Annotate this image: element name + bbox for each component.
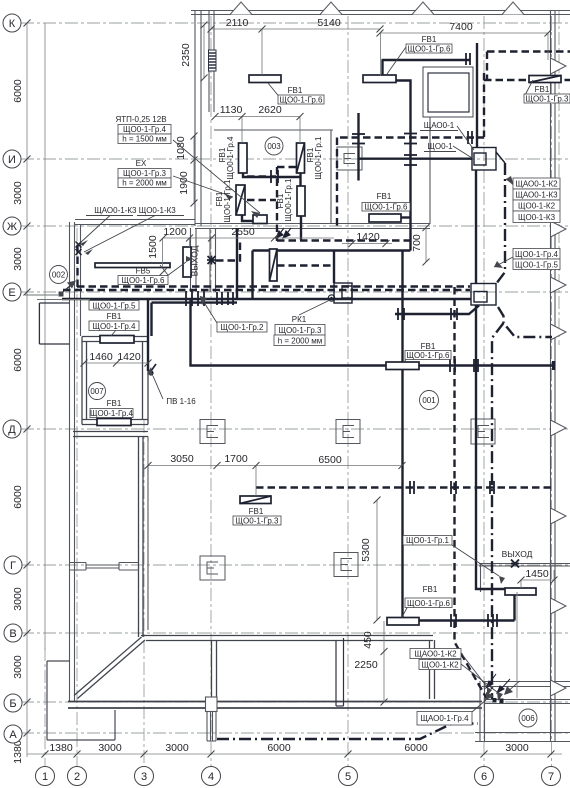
svg-text:1450: 1450 [525,568,549,580]
svg-text:1900: 1900 [178,171,190,195]
svg-text:2350: 2350 [180,43,192,67]
svg-text:3050: 3050 [170,453,194,465]
svg-text:EX: EX [136,159,147,168]
svg-text:Д: Д [8,424,16,436]
svg-text:2250: 2250 [354,659,378,671]
svg-text:ЩО0-1-Гр.1: ЩО0-1-Гр.1 [314,136,323,180]
svg-text:ЩАО0-1-К2: ЩАО0-1-К2 [515,180,558,189]
svg-text:1420: 1420 [117,351,141,363]
svg-text:3000: 3000 [12,181,24,205]
svg-text:FB1: FB1 [423,585,438,594]
svg-text:450: 450 [362,631,374,649]
svg-text:ЩО0-1-Гр.6: ЩО0-1-Гр.6 [365,203,409,212]
svg-text:ЩО0-1-К3: ЩО0-1-К3 [518,213,556,222]
svg-text:h = 2000 мм: h = 2000 мм [122,179,167,188]
svg-text:FB1: FB1 [422,35,437,44]
svg-text:ЩО0-1-Гр.4: ЩО0-1-Гр.4 [93,322,137,331]
svg-text:3000: 3000 [12,587,24,611]
svg-text:003: 003 [267,142,281,151]
svg-text:1080: 1080 [175,136,187,160]
svg-text:И: И [8,154,16,166]
svg-text:FB1: FB1 [107,399,122,408]
svg-text:ЩО0-1-Гр.3: ЩО0-1-Гр.3 [279,326,323,335]
svg-text:3000: 3000 [165,742,189,754]
svg-text:5300: 5300 [360,538,372,562]
svg-text:ЩО0-1-Гр.4: ЩО0-1-Гр.4 [123,125,167,134]
svg-text:3000: 3000 [98,742,122,754]
svg-text:FB1: FB1 [535,85,550,94]
svg-text:ЩО0-1-Гр.6: ЩО0-1-Гр.6 [122,276,166,285]
svg-text:ЩО0-1-Гр.4: ЩО0-1-Гр.4 [515,250,559,259]
svg-text:3: 3 [141,771,147,783]
svg-text:ЩО0-1-Гр.6: ЩО0-1-Гр.6 [407,599,451,608]
svg-text:3000: 3000 [12,655,24,679]
svg-text:Б: Б [9,698,16,710]
svg-text:FB1: FB1 [377,192,392,201]
svg-text:700: 700 [411,234,423,252]
svg-text:6: 6 [481,771,487,783]
svg-text:Г: Г [10,560,16,572]
svg-text:ЩО0-1-Гр.3: ЩО0-1-Гр.3 [526,95,570,104]
svg-text:2550: 2550 [231,226,255,238]
svg-text:1130: 1130 [220,104,243,116]
svg-text:6000: 6000 [267,742,291,754]
svg-text:h = 1500 мм: h = 1500 мм [122,135,167,144]
svg-text:001: 001 [422,396,436,405]
svg-text:ЩО0-1-Гр.5: ЩО0-1-Гр.5 [515,261,559,270]
svg-text:РК1: РК1 [292,315,307,324]
svg-text:ЩО0-1-Гр.1: ЩО0-1-Гр.1 [406,536,450,545]
svg-text:Ж: Ж [7,221,17,233]
svg-text:3000: 3000 [12,247,24,271]
svg-text:3000: 3000 [505,742,529,754]
svg-text:2620: 2620 [258,104,282,116]
svg-text:FB1: FB1 [107,312,122,321]
svg-text:Е: Е [8,287,15,299]
svg-text:1380: 1380 [49,742,73,754]
svg-text:1: 1 [42,771,48,783]
svg-text:1700: 1700 [224,453,248,465]
svg-text:ЩАО0-1: ЩАО0-1 [424,121,455,130]
svg-text:ВЫХОД: ВЫХОД [190,245,200,276]
svg-text:FB1: FB1 [421,342,436,351]
svg-text:ЩО0-1-Гр.4: ЩО0-1-Гр.4 [90,409,134,418]
svg-text:1500: 1500 [147,235,159,259]
svg-text:FB1: FB1 [249,507,264,516]
svg-text:4: 4 [208,771,214,783]
svg-text:006: 006 [521,714,535,723]
svg-text:ЩАО0-1-К3: ЩАО0-1-К3 [515,191,558,200]
svg-text:К: К [9,18,16,30]
svg-text:ЩО0-1-Гр.3: ЩО0-1-Гр.3 [236,517,280,526]
svg-text:ЩО0-1-Гр.6: ЩО0-1-Гр.6 [408,45,452,54]
svg-text:ЩАО0-1-К2: ЩАО0-1-К2 [414,650,457,659]
svg-text:ВЫХОД: ВЫХОД [502,549,533,559]
svg-text:ЩО0-1-Гр.1: ЩО0-1-Гр.1 [284,178,293,222]
svg-text:1420: 1420 [356,231,380,243]
svg-text:5140: 5140 [317,17,341,29]
svg-text:ЩО0-1-Гр.6: ЩО0-1-Гр.6 [407,351,451,360]
svg-text:ЯТП-0,25 12В: ЯТП-0,25 12В [115,115,166,124]
svg-text:ЩО0-1-Гр.3: ЩО0-1-Гр.3 [123,169,167,178]
svg-text:FB1: FB1 [288,86,303,95]
svg-text:ПВ 1-16: ПВ 1-16 [166,397,196,406]
svg-text:6000: 6000 [12,348,24,372]
svg-text:1200: 1200 [163,226,187,238]
svg-text:ЩО0-1-Гр.1: ЩО0-1-Гр.1 [223,179,232,223]
svg-text:7: 7 [548,771,554,783]
svg-text:ЩО0-1-Гр.6: ЩО0-1-Гр.6 [280,96,324,105]
svg-text:6000: 6000 [404,742,428,754]
svg-text:2110: 2110 [226,17,249,29]
svg-text:5: 5 [345,771,351,783]
svg-text:1380: 1380 [12,740,24,764]
svg-text:6500: 6500 [318,454,342,466]
svg-text:ЩО0-1: ЩО0-1 [427,142,453,151]
svg-text:6000: 6000 [12,79,24,103]
svg-text:В: В [9,628,16,640]
svg-text:А: А [9,729,17,741]
svg-text:2: 2 [74,771,80,783]
svg-text:1460: 1460 [89,351,113,363]
svg-text:ЩАО0-1-К3 ЩО0-1-К3: ЩАО0-1-К3 ЩО0-1-К3 [94,206,176,215]
svg-text:007: 007 [90,387,104,396]
svg-text:h = 2000 мм: h = 2000 мм [278,337,323,346]
svg-text:ЩО0-1-Гр.2: ЩО0-1-Гр.2 [221,323,265,332]
svg-text:ЩО0-1-Гр.5: ЩО0-1-Гр.5 [93,302,137,311]
svg-text:002: 002 [52,271,66,280]
svg-text:FB5: FB5 [136,267,151,276]
svg-text:7400: 7400 [449,21,473,33]
svg-text:ЩО0-1-К2: ЩО0-1-К2 [518,202,556,211]
svg-text:ЩАО0-1-Гр.4: ЩАО0-1-Гр.4 [420,714,469,723]
svg-text:ЩО0-1-Гр.4: ЩО0-1-Гр.4 [226,136,235,180]
svg-text:6000: 6000 [12,485,24,509]
svg-text:ЩО0-1-К2: ЩО0-1-К2 [421,661,459,670]
